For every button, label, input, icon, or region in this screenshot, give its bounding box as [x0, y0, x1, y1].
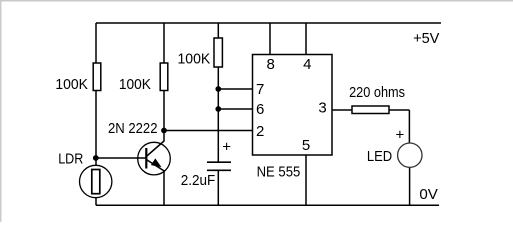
svg-text:NE 555: NE 555 — [257, 164, 301, 181]
svg-text:4: 4 — [303, 56, 311, 73]
svg-text:220 ohms: 220 ohms — [349, 84, 405, 101]
svg-text:3: 3 — [318, 100, 326, 117]
svg-text:+: + — [396, 126, 405, 143]
svg-text:6: 6 — [256, 101, 264, 118]
svg-text:+: + — [222, 138, 231, 155]
svg-text:0V: 0V — [419, 186, 438, 203]
svg-text:LDR: LDR — [58, 151, 83, 168]
svg-text:2: 2 — [256, 123, 264, 140]
svg-text:LED: LED — [367, 148, 392, 165]
svg-text:100K: 100K — [119, 76, 151, 93]
svg-text:7: 7 — [256, 81, 264, 98]
svg-text:100K: 100K — [55, 76, 88, 93]
svg-text:+5V: +5V — [413, 30, 439, 47]
svg-text:8: 8 — [267, 56, 275, 73]
svg-text:2.2uF: 2.2uF — [181, 172, 216, 189]
svg-text:2N 2222: 2N 2222 — [108, 120, 158, 137]
svg-text:5: 5 — [302, 137, 310, 154]
svg-text:100K: 100K — [178, 51, 211, 68]
